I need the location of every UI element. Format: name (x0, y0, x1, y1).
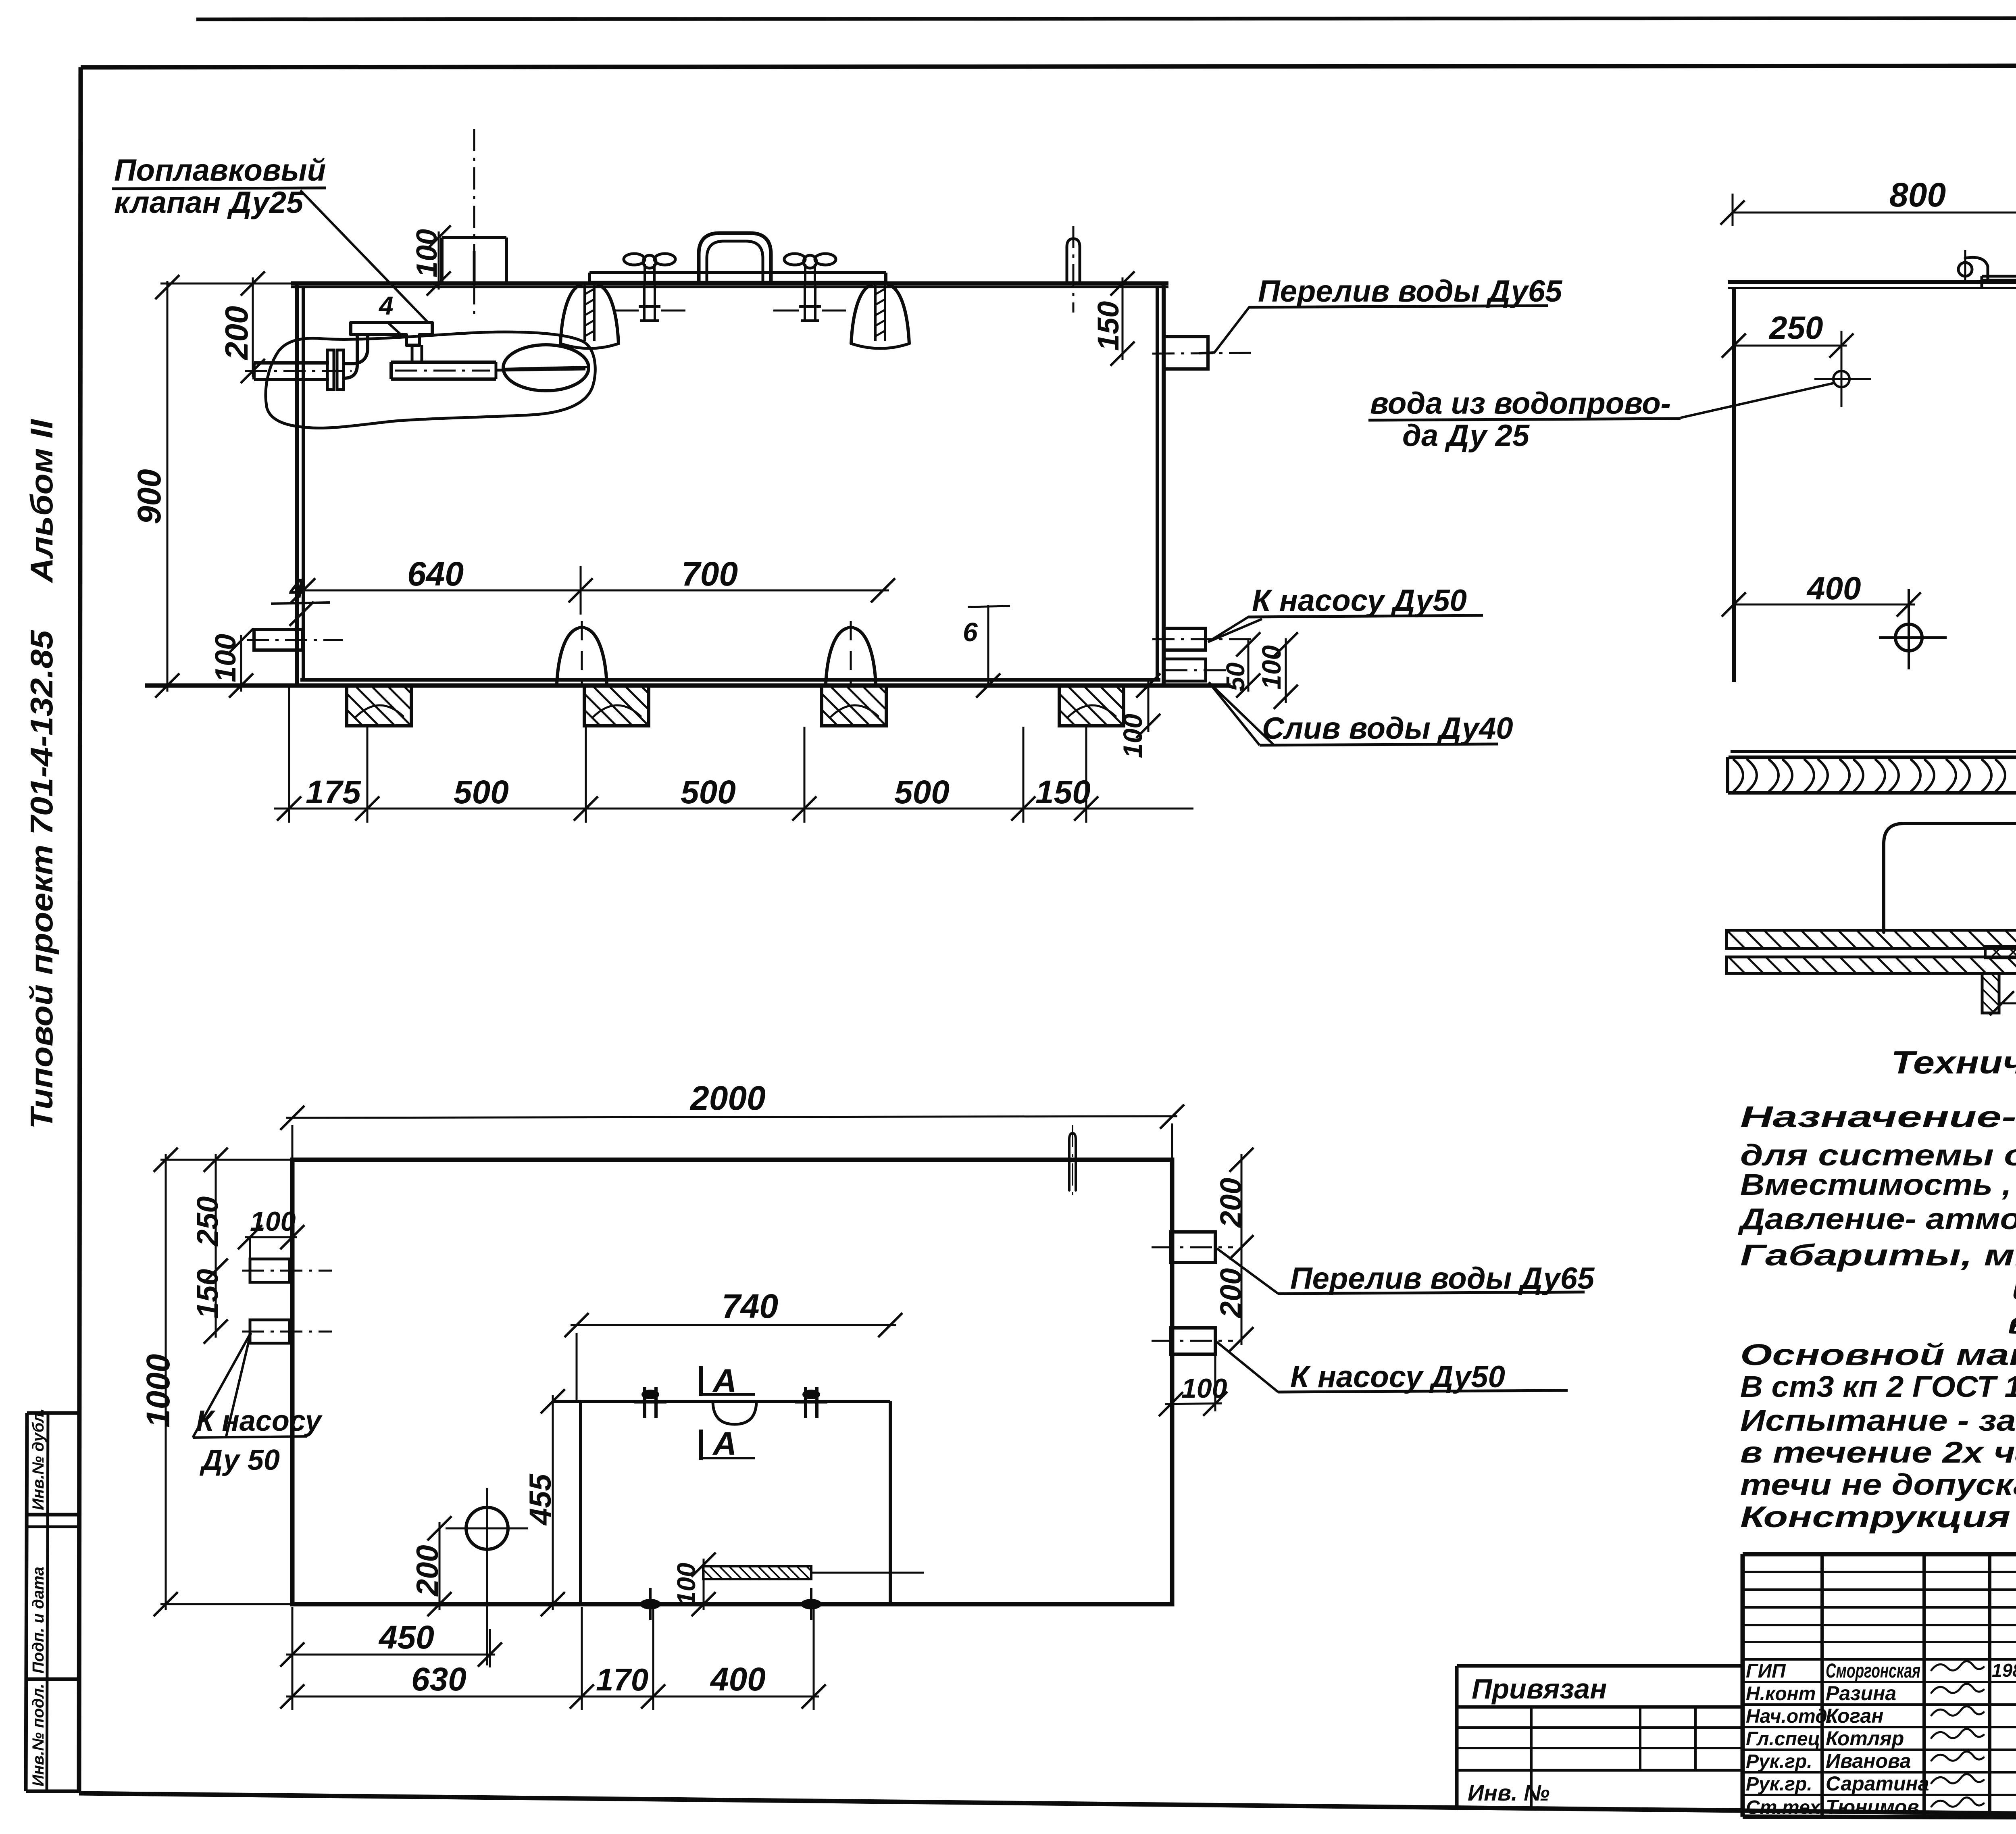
leader pereliv front (1200, 307, 1249, 353)
sheet top paper edge line (196, 18, 2016, 19)
title block col line 1 (1820, 1554, 1824, 1817)
svg-text:Тюнимов: Тюнимов (1826, 1796, 1919, 1818)
dimension 200 plan right upper (1241, 1154, 1243, 1253)
svg-text:100: 100 (250, 1206, 296, 1237)
float ball (503, 345, 589, 391)
front view bottom gusset 3 (826, 628, 847, 684)
svg-text:700: 700 (681, 555, 738, 593)
dimension 100 support height (1148, 679, 1150, 732)
svg-text:Техническая характеристика: Техническая характеристика. (1891, 1044, 2016, 1080)
svg-text:Поплавковый: Поплавковый (114, 153, 326, 188)
privyazan table outline (1457, 1664, 1743, 1668)
svg-text:2000: 2000 (689, 1079, 766, 1117)
dimension 455 (552, 1395, 554, 1610)
privyazan row line (1457, 1705, 1743, 1709)
front view vent pipe (1067, 239, 1080, 283)
float valve outlet pipe (391, 361, 496, 364)
plan view wing bolt top right (804, 1387, 807, 1418)
svg-text:Сморгонская: Сморгонская (1826, 1659, 1920, 1682)
leader sliv vody (1209, 682, 1260, 745)
svg-text:170: 170 (596, 1662, 648, 1697)
sheet frame top border (81, 65, 2016, 67)
title block header thin rows (1743, 1571, 2016, 1573)
float valve seat stem (411, 345, 414, 362)
title block name rows (1743, 1658, 2016, 1661)
svg-text:150: 150 (1091, 301, 1125, 351)
svg-text:Иванова: Иванова (1826, 1750, 1911, 1772)
svg-text:500: 500 (894, 774, 950, 811)
side view hinge detail left (1958, 263, 1972, 276)
dimension 200 plan right lower (1241, 1241, 1243, 1345)
target point bottom (1895, 624, 1922, 651)
plan view tank outline (292, 1160, 1172, 1604)
detail upper plate hatched (1727, 930, 2016, 948)
side view bottom lines (1731, 750, 2016, 753)
svg-text:100: 100 (1118, 714, 1148, 758)
front view bottom support 3 (822, 686, 886, 726)
dimension 150 plan (215, 1265, 217, 1338)
dimension 250 (1734, 345, 1847, 347)
dimension 55 (1999, 1002, 2016, 1005)
svg-text:400: 400 (710, 1661, 766, 1698)
bottom dimension row 175-500-500-500-150 (274, 808, 1193, 810)
svg-text:900: 900 (131, 469, 168, 524)
svg-text:Гл.спец: Гл.спец (1746, 1728, 1820, 1750)
dimension 640-700 line (297, 590, 889, 592)
plan view lid opening right edge (889, 1401, 892, 1604)
detail lower plate hatched (1727, 957, 2016, 973)
svg-text:1000: 1000 (140, 1354, 177, 1428)
svg-text:100: 100 (1256, 645, 1286, 690)
leader voda iz vodoprovoda (1681, 383, 1834, 418)
svg-text:В ст3 кп 2 ГОСТ 14637-79, труб: В ст3 кп 2 ГОСТ 14637-79, трубы В20ГОСТ8… (1740, 1370, 2016, 1403)
svg-text:500: 500 (454, 774, 509, 811)
svg-text:Ст.тех: Ст.тех (1746, 1797, 1821, 1818)
left stamp divider thin row (27, 1526, 79, 1528)
front view filler chimney (440, 238, 444, 283)
pump nozzle right centerline (1152, 638, 1252, 640)
svg-text:в течение 2х часов, швы прост: в течение 2х часов, швы простучать, (1740, 1436, 2016, 1469)
svg-text:6: 6 (963, 617, 978, 647)
svg-text:100: 100 (1181, 1373, 1227, 1404)
front view bottom support 2 (584, 686, 649, 726)
svg-text:Саратина: Саратина (1826, 1772, 1929, 1795)
dimension 100 right (1285, 638, 1287, 703)
svg-text:800: 800 (1889, 176, 1946, 214)
dimension 100 chimney height (438, 231, 440, 290)
left pump nozzle (254, 629, 303, 650)
dimension 2000 (286, 1116, 1177, 1118)
svg-text:Подп. и дата: Подп. и дата (29, 1567, 47, 1674)
svg-text:250: 250 (191, 1196, 224, 1247)
dimension 100 plan left (245, 1236, 297, 1238)
svg-text:Рук.гр.: Рук.гр. (1746, 1751, 1812, 1772)
front view wing bolt extension dashes (613, 310, 639, 312)
left stamp column mid line (47, 1413, 48, 1791)
svg-text:Вместимость , м³-1,4: Вместимость , м³-1,4 (1740, 1168, 2016, 1201)
front view bottom support 1 (347, 686, 411, 726)
svg-text:ширина 1100: ширина 1100 (2012, 1272, 2016, 1306)
svg-text:455: 455 (523, 1473, 558, 1526)
float valve body (351, 323, 432, 345)
dimension 50 right (1248, 638, 1250, 692)
svg-text:450: 450 (378, 1619, 434, 1656)
title block outer top (1743, 1552, 2016, 1557)
privyazan column lines (1530, 1707, 1533, 1808)
side view tank shell (1732, 288, 1736, 682)
front view tank top lid line (291, 281, 1168, 286)
svg-text:Габариты, мм длина- 2200: Габариты, мм длина- 2200 (1740, 1238, 2016, 1272)
title block col line 2 (1922, 1554, 1926, 1817)
svg-text:740: 740 (722, 1287, 778, 1325)
svg-text:200: 200 (410, 1545, 445, 1597)
svg-text:Слив воды Ду40: Слив воды Ду40 (1262, 711, 1513, 746)
svg-text:100: 100 (672, 1563, 701, 1606)
float valve flange (327, 350, 334, 390)
dimension 400 side bottom (1734, 604, 1915, 606)
front view lid bracket left (560, 285, 581, 344)
dimension 100 handle (703, 1559, 705, 1610)
plan view wing bolt bottom right (801, 1599, 822, 1609)
front view bottom gusset 2 (557, 628, 578, 684)
svg-text:400: 400 (1806, 570, 1861, 606)
dimension 100 left nozzle (240, 635, 242, 692)
float valve outlet centerline (395, 370, 490, 372)
dimension 450 (286, 1654, 495, 1656)
plan view handle notch (713, 1403, 756, 1424)
dimension 100 plan right (1165, 1403, 1222, 1404)
plan view vent stub top (1069, 1133, 1076, 1190)
svg-text:Испытание - заполнить водой, в: Испытание - заполнить водой, выдержать (1740, 1404, 2016, 1437)
float valve inlet pipe (254, 361, 329, 365)
title block col line 3 (1988, 1554, 1991, 1817)
svg-text:Рук.гр.: Рук.гр. (1746, 1774, 1812, 1795)
float valve inlet centerline (245, 370, 352, 372)
float valve cloud outline (266, 332, 595, 428)
sheet frame left border (79, 67, 81, 1793)
svg-text:Инв.№ подл.: Инв.№ подл. (29, 1684, 47, 1786)
dimension 150 overflow (1122, 277, 1124, 360)
svg-text:ГИП: ГИП (1746, 1661, 1786, 1682)
front view tank bottom inner line (300, 678, 1160, 682)
plan view right nozzle stub upper (1171, 1232, 1215, 1263)
svg-text:630: 630 (411, 1661, 467, 1698)
plan view lid opening top edge (553, 1400, 890, 1403)
dimension 740 (571, 1324, 896, 1326)
svg-text:клапан Ду25: клапан Ду25 (114, 185, 304, 220)
dimension 200 float pipe (252, 277, 254, 377)
svg-text:200: 200 (219, 306, 254, 361)
leader k nasosu right (1208, 617, 1248, 642)
front view lid bracket right (851, 285, 872, 344)
svg-text:Разина: Разина (1826, 1682, 1896, 1705)
svg-text:для системы оборотного водос: для системы оборотного водоснабжения (1740, 1138, 2016, 1172)
leader k nasosu plan right (1217, 1342, 1278, 1392)
svg-text:200: 200 (1214, 1178, 1248, 1228)
left stamp divider 2 (27, 1513, 79, 1517)
plan bottom extension lines (292, 1607, 294, 1710)
svg-text:500: 500 (681, 774, 736, 811)
chimney centerline (473, 129, 475, 315)
title block bottom (1743, 1817, 2016, 1818)
detail angle leg hatched (1982, 973, 1999, 1013)
plan view left nozzle stub lower (250, 1320, 289, 1343)
svg-text:Давление- атмосферное.: Давление- атмосферное. (1737, 1202, 2016, 1236)
float rod (496, 369, 585, 370)
svg-text:150: 150 (1035, 774, 1091, 811)
leader to float valve (300, 190, 428, 323)
front view tank bottom plate line (145, 684, 1231, 688)
sheet frame bottom border (79, 1793, 2016, 1819)
pump nozzle right (1164, 628, 1206, 650)
dimension 400 plan (653, 1696, 819, 1698)
front view bottom support 4 (1059, 686, 1124, 726)
dimension 630 (286, 1696, 587, 1698)
front view wing bolt right (784, 254, 805, 265)
side view lid lines (1728, 280, 2016, 284)
svg-text:200: 200 (1214, 1268, 1248, 1319)
svg-text:высота- 1100: высота- 1100 (2008, 1307, 2016, 1340)
leader pereliv plan (1217, 1248, 1278, 1294)
drain stub centerline (1165, 669, 1226, 671)
svg-text:100: 100 (411, 229, 443, 277)
vent pipe centerline (1073, 226, 1075, 313)
overflow nozzle centerline (1152, 353, 1252, 354)
plan view handle bottom hatched (703, 1566, 811, 1579)
svg-text:4: 4 (378, 291, 394, 320)
svg-text:да Ду 25: да Ду 25 (1402, 419, 1530, 453)
svg-text:Перелив воды Ду65: Перелив воды Ду65 (1290, 1261, 1595, 1296)
plan view wing bolt top left (643, 1387, 646, 1418)
svg-text:Назначение- создание запаса: Назначение- создание запаса воды (1740, 1100, 2016, 1134)
bottom dims extension lines (288, 687, 290, 823)
plan view lid opening left edge (579, 1401, 582, 1604)
side view raised lid section (1982, 275, 2016, 278)
svg-text:Нач.отд.: Нач.отд. (1746, 1706, 1833, 1727)
svg-text:К насосу Ду50: К насосу Ду50 (1290, 1360, 1505, 1394)
svg-text:640: 640 (407, 555, 464, 593)
svg-text:Ду 50: Ду 50 (199, 1444, 280, 1476)
svg-text:150: 150 (191, 1269, 224, 1319)
svg-text:Н.конт: Н.конт (1746, 1683, 1816, 1705)
svg-text:1984: 1984 (1992, 1660, 2016, 1681)
leader k nasosu plan (193, 1333, 251, 1438)
svg-text:Котляр: Котляр (1826, 1727, 1904, 1750)
side view timber base chevron strip (1728, 791, 2016, 795)
svg-text:К насосу Ду50: К насосу Ду50 (1252, 584, 1467, 618)
left stamp column outer line (26, 1413, 27, 1791)
left pump nozzle centerline (247, 639, 343, 641)
svg-text:К насосу: К насосу (196, 1405, 323, 1437)
dimension 200 manhole (439, 1522, 441, 1610)
dimension 170 (582, 1696, 658, 1698)
svg-text:Инв.№ дубл.: Инв.№ дубл. (29, 1408, 47, 1510)
float valve elbow (344, 335, 368, 364)
svg-text:Коган: Коган (1826, 1705, 1883, 1727)
overflow nozzle (1164, 337, 1208, 369)
svg-text:4: 4 (289, 573, 305, 604)
plan view manhole circle (466, 1507, 508, 1549)
svg-text:Привязан: Привязан (1472, 1673, 1607, 1705)
svg-text:Перелив воды Ду65: Перелив воды Ду65 (1258, 274, 1563, 308)
front view tank shell (295, 283, 299, 686)
plan view wing bolt bottom left (640, 1599, 661, 1609)
drain stub right (1164, 659, 1206, 681)
svg-text:Инв. №: Инв. № (1468, 1780, 1549, 1805)
front view wing bolt left (624, 254, 645, 265)
svg-text:А: А (712, 1426, 737, 1462)
svg-text:вода из водопрово-: вода из водопрово- (1370, 386, 1671, 421)
target point vodoprovod (1833, 371, 1849, 387)
svg-text:течи не допускаются.: течи не допускаются. (1740, 1468, 2016, 1501)
front view top-left extension line (160, 283, 297, 285)
front view lid handle (699, 233, 771, 282)
svg-text:Конструкция сварная.: Конструкция сварная. (1740, 1500, 2016, 1534)
left stamp divider 3 (26, 1678, 79, 1681)
dimension 250 plan (215, 1154, 217, 1277)
svg-text:175: 175 (306, 774, 361, 811)
svg-text:Основной материал-сталь лист: Основной материал-сталь листовая (1740, 1338, 2016, 1371)
detail lid cover profile (1884, 823, 2016, 932)
privyazan thin rows (1457, 1726, 1743, 1729)
detail gasket crosshatch (1985, 946, 2016, 958)
svg-text:250: 250 (1768, 310, 1823, 346)
plan view left nozzle stub upper (250, 1259, 289, 1282)
title block left border (1741, 1554, 1745, 1817)
front view lid plate (589, 271, 886, 274)
dimension 900 tank height (167, 281, 169, 692)
svg-text:100: 100 (210, 634, 242, 682)
dimension 1000 (165, 1154, 167, 1610)
dimension 800 (1733, 212, 2016, 214)
front view top flange line (291, 286, 1168, 288)
svg-text:Типовой проект 701-4-132.85: Типовой проект 701-4-132.85 Альбом II (24, 419, 59, 1129)
left stamp bottom closure (26, 1790, 79, 1793)
svg-text:50: 50 (1221, 663, 1250, 691)
plan view right nozzle stub lower (1171, 1328, 1215, 1354)
left stamp column top divider (27, 1411, 79, 1415)
